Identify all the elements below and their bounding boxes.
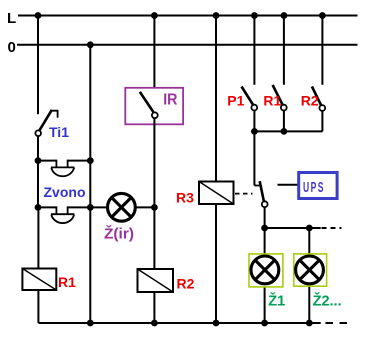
frame lamp Z2 box — [294, 254, 327, 286]
lamp Z(ir) cross — [112, 198, 132, 218]
junction dot L-A — [35, 12, 42, 19]
wire column A down to relay R1 — [37, 207, 39, 268]
switch R2 contact pivot circle — [319, 105, 325, 111]
wire lamp Z(ir) row — [90, 206, 154, 208]
wire R2 contact bottom — [321, 111, 323, 131]
wire column C below IR to relay R2 — [153, 118, 155, 269]
switch Ti1 blade — [39, 110, 52, 131]
junction dot bottom-D — [213, 320, 220, 327]
wire UPS feed — [278, 184, 298, 186]
svg-text:Ž1: Ž1 — [268, 291, 285, 309]
junction dot bell1 left — [35, 157, 42, 164]
lamp Z1 cross — [255, 260, 275, 280]
wire lamp feed dashed continuation — [322, 227, 342, 229]
wire column D lower (R3 to bottom rail) — [215, 204, 217, 323]
lamp Z2 circle — [296, 256, 324, 284]
junction dot bus-R1 — [281, 128, 288, 135]
relay coil R3 box — [199, 182, 234, 205]
lamp Z1 circle — [251, 256, 279, 284]
frame lamp Z1 box — [249, 254, 283, 287]
wire bottom rail dashed continuation — [326, 322, 350, 324]
switch Ti1 pivot circle — [35, 130, 41, 136]
svg-text:P1: P1 — [227, 92, 244, 108]
wire 0 rail — [17, 44, 358, 46]
junction dot L-E — [251, 12, 258, 19]
wire bell row 2 left — [38, 206, 56, 208]
junction dot 0-B — [87, 41, 94, 48]
switch R3 contact blade — [260, 181, 264, 201]
wire column E upper (L to P1) — [253, 16, 255, 85]
lamp Z2 cross — [300, 260, 320, 280]
switch P1 pivot circle — [251, 105, 257, 111]
wire column C upper (L to IR box) — [153, 16, 155, 89]
relay coil R1 box — [22, 269, 56, 291]
wire L rail — [18, 15, 358, 17]
svg-text:0: 0 — [8, 39, 16, 56]
junction dot L-C — [151, 12, 158, 19]
svg-text:R2: R2 — [301, 92, 319, 108]
relay coil R1 diagonal — [22, 269, 56, 291]
svg-text:R3: R3 — [176, 189, 194, 205]
svg-text:Ž2...: Ž2... — [313, 291, 342, 309]
svg-text:L: L — [7, 10, 16, 27]
switch IR blade — [140, 92, 154, 113]
wire lamp feed row — [265, 227, 321, 229]
switch R3 contact pivot circle — [262, 201, 268, 207]
mechanical link R3 dashed — [235, 193, 253, 195]
wire bell row 1 right — [68, 160, 91, 162]
wire column D upper (L to R3) — [215, 16, 217, 182]
junction dot L-D — [213, 12, 220, 19]
svg-text:R2: R2 — [177, 276, 195, 292]
switch IR pivot circle — [152, 112, 158, 118]
switch R2 contact blade — [312, 87, 321, 106]
wire column G upper (L to R2 contact) — [321, 16, 323, 85]
wire column A bell1 to bell2 — [37, 161, 39, 208]
relay coil R2 box — [138, 269, 174, 292]
bell Zvono #1 dome — [51, 167, 74, 176]
relay coil R2 diagonal — [138, 269, 174, 292]
wire R1 contact bottom — [283, 111, 285, 132]
junction dot bell2 right — [87, 204, 94, 211]
junction dot L-G — [319, 12, 326, 19]
wire column B (0 rail down to bottom rail) — [89, 45, 91, 323]
junction dot L-F — [281, 12, 288, 19]
wire column A below Ti1 to bell row 1 — [37, 136, 39, 161]
svg-text:R1: R1 — [58, 274, 76, 290]
wire P1 bottom — [253, 111, 255, 132]
wire bell row 2 right — [68, 206, 91, 208]
junction dot lampfeed-Z1 — [261, 225, 268, 232]
wire R3 contact bottom — [264, 207, 266, 228]
wire R1 bottom — [37, 290, 39, 323]
wire column F upper (L to R1 contact) — [283, 16, 285, 85]
junction dot lampfeed-Z2 — [306, 225, 313, 232]
wire R2 bottom — [153, 292, 155, 323]
wire P branch down to R3 contact — [253, 131, 255, 185]
sensor IR box — [125, 88, 183, 125]
junction dot bell2 left — [35, 204, 42, 211]
switch P1 blade — [242, 87, 254, 106]
box UPS — [299, 173, 337, 199]
bell Zvono #1 pins — [56, 160, 67, 168]
wire switch bus row — [254, 130, 322, 132]
switch Ti1 hook — [51, 111, 57, 118]
wire bottom rail — [38, 322, 320, 324]
junction dot lamp row C — [151, 204, 158, 211]
wire R3 contact jog — [254, 185, 259, 187]
wire lamp Z1 branch — [264, 228, 266, 323]
junction dot bus-P1 — [251, 128, 258, 135]
junction dot bottom-B — [87, 320, 94, 327]
bell Zvono #2 dome — [51, 214, 74, 223]
junction dot bottom-C — [151, 320, 158, 327]
svg-text:Ž(ir): Ž(ir) — [104, 225, 134, 243]
wire bell row 1 left — [38, 160, 56, 162]
junction dot bottom-Z1 — [261, 320, 268, 327]
wire column A upper (L to Ti1) — [37, 16, 39, 115]
lamp Z(ir) circle — [108, 193, 136, 221]
switch R1 contact pivot circle — [281, 105, 287, 111]
wire lamp Z2 branch — [308, 228, 310, 323]
svg-text:R1: R1 — [263, 92, 281, 108]
svg-text:Ti1: Ti1 — [49, 124, 69, 140]
junction dot bottom-Z2 — [306, 320, 313, 327]
svg-text:Zvono: Zvono — [44, 184, 86, 200]
svg-text:IR: IR — [163, 91, 178, 108]
bell Zvono #2 pins — [56, 206, 67, 214]
relay coil R3 diagonal — [199, 182, 234, 205]
svg-text:UPS: UPS — [303, 179, 325, 196]
junction dot bell1 right — [87, 157, 94, 164]
switch R1 contact blade — [273, 85, 283, 105]
